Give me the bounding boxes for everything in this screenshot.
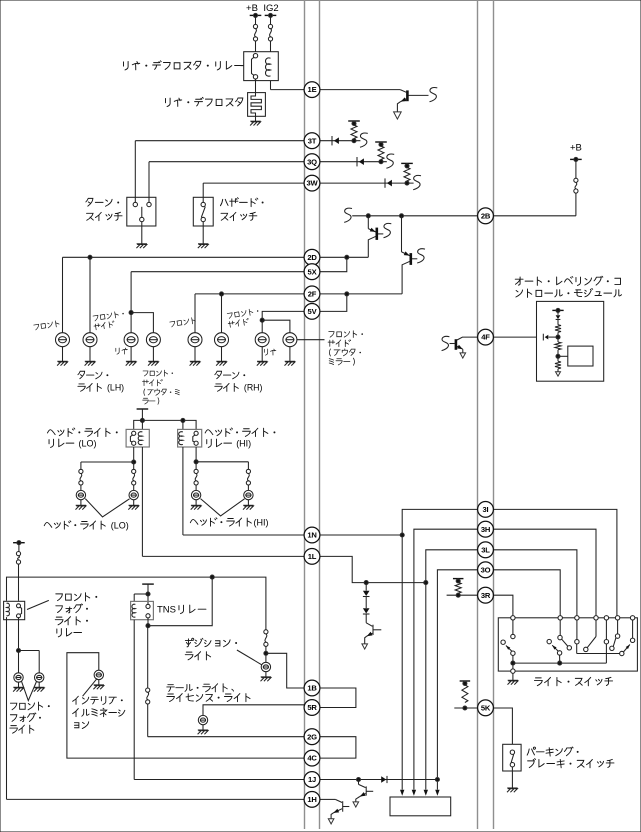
svg-text:3W: 3W xyxy=(307,179,319,188)
svg-text:(LH): (LH) xyxy=(107,383,124,393)
svg-text:(HI): (HI) xyxy=(236,439,251,449)
svg-text:3L: 3L xyxy=(481,545,490,554)
svg-text:3I: 3I xyxy=(483,505,489,514)
svg-text:1E: 1E xyxy=(308,85,317,94)
svg-text:IG2: IG2 xyxy=(263,3,278,14)
svg-text:1H: 1H xyxy=(307,795,316,804)
svg-text:3Q: 3Q xyxy=(307,157,317,166)
svg-text:2D: 2D xyxy=(307,253,317,262)
svg-text:TNS: TNS xyxy=(157,605,176,616)
svg-text:1L: 1L xyxy=(308,552,317,561)
svg-text:(RH): (RH) xyxy=(244,383,263,393)
svg-text:4F: 4F xyxy=(481,333,490,342)
svg-text:5V: 5V xyxy=(308,307,318,316)
svg-text:1B: 1B xyxy=(307,684,317,693)
svg-text:5X: 5X xyxy=(308,267,317,276)
svg-text:3O: 3O xyxy=(481,565,491,574)
svg-text:3R: 3R xyxy=(481,591,491,600)
svg-text:2G: 2G xyxy=(307,732,317,741)
svg-text:4C: 4C xyxy=(307,754,317,763)
svg-text:1J: 1J xyxy=(308,775,316,784)
svg-text:1N: 1N xyxy=(307,531,316,540)
svg-text:(HI): (HI) xyxy=(254,518,269,528)
svg-text:+B: +B xyxy=(570,143,582,154)
svg-text:2F: 2F xyxy=(308,290,317,299)
svg-text:3H: 3H xyxy=(481,525,490,534)
svg-text:5R: 5R xyxy=(307,703,317,712)
svg-text:2B: 2B xyxy=(481,211,491,220)
svg-text:5K: 5K xyxy=(481,703,491,712)
svg-text:(LO): (LO) xyxy=(79,439,97,449)
svg-text:+B: +B xyxy=(246,3,258,14)
svg-text:3T: 3T xyxy=(308,136,317,145)
svg-text:(LO): (LO) xyxy=(111,521,129,531)
